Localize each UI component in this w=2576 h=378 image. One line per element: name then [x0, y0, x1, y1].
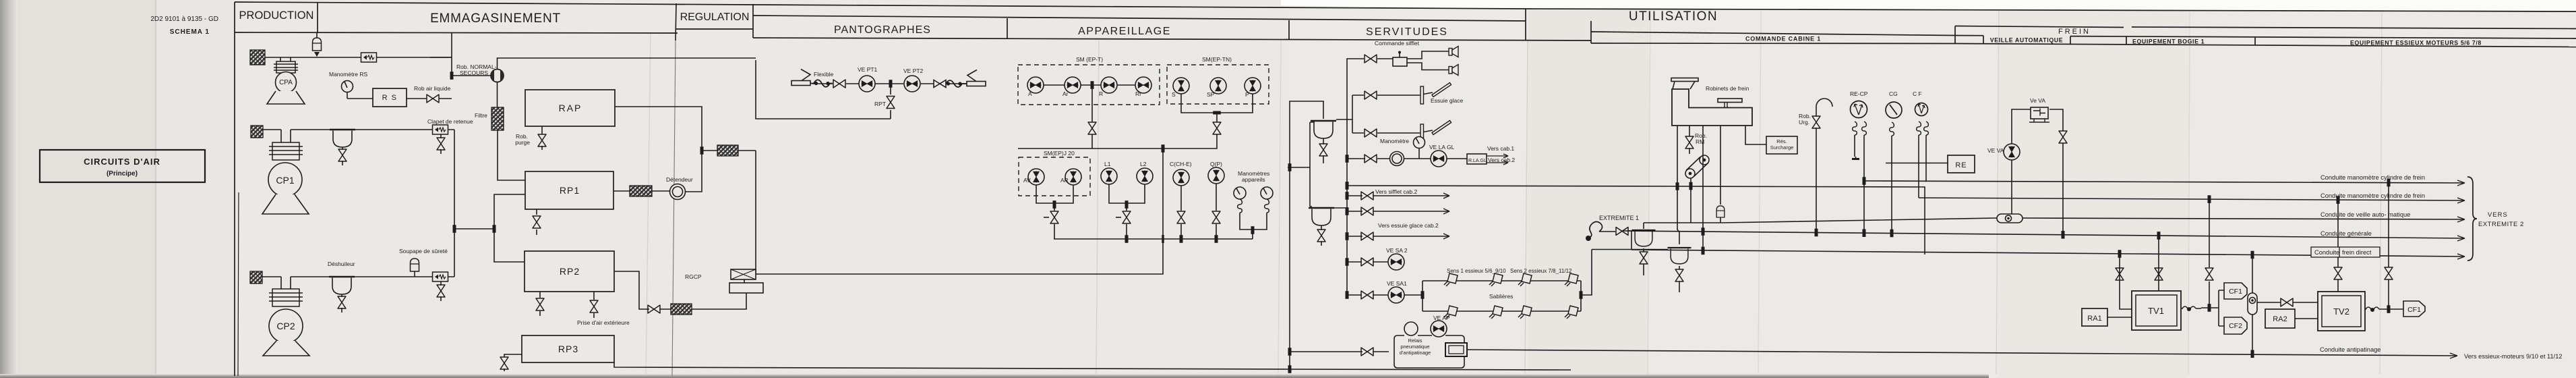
svg-text:SERVITUDES: SERVITUDES — [1366, 26, 1448, 38]
svg-text:EXTREMITE 1: EXTREMITE 1 — [1599, 215, 1639, 221]
svg-text:R S: R S — [382, 94, 398, 102]
svg-text:d'antipatinage: d'antipatinage — [1400, 350, 1431, 356]
svg-text:REGULATION: REGULATION — [680, 11, 750, 23]
svg-text:S: S — [1172, 91, 1176, 98]
svg-text:Conduite manomètre cylindre de: Conduite manomètre cylindre de frein — [2320, 174, 2425, 181]
svg-text:VEILLE AUTOMATIQUE: VEILLE AUTOMATIQUE — [1990, 37, 2063, 44]
svg-text:appareils: appareils — [1242, 176, 1265, 183]
svg-text:SP: SP — [1207, 91, 1215, 98]
svg-text:CF2: CF2 — [2229, 322, 2242, 330]
svg-text:Rr: Rr — [1135, 90, 1141, 97]
svg-text:P: P — [1245, 91, 1249, 98]
svg-text:PRODUCTION: PRODUCTION — [239, 9, 314, 22]
svg-text:FREIN: FREIN — [2058, 28, 2091, 36]
svg-text:Robinets de frein: Robinets de frein — [1706, 85, 1749, 92]
svg-text:RP3: RP3 — [558, 344, 578, 354]
svg-text:C(CH-E): C(CH-E) — [1170, 161, 1192, 167]
svg-text:VE AP: VE AP — [1433, 315, 1450, 321]
svg-text:L2: L2 — [1140, 161, 1147, 167]
svg-text:EQUIPEMENT ESSIEUX MOTEURS 5/: EQUIPEMENT ESSIEUX MOTEURS 5/6 7/8 — [2350, 40, 2482, 47]
svg-text:L1: L1 — [1104, 161, 1111, 167]
svg-text:CF1: CF1 — [2229, 288, 2242, 296]
svg-text:Flexible: Flexible — [814, 71, 834, 78]
svg-text:Essuie glace: Essuie glace — [1431, 97, 1463, 104]
svg-text:Urg.: Urg. — [1799, 119, 1809, 126]
svg-text:TV2: TV2 — [2333, 306, 2349, 317]
svg-text:Conduite manomètre cylindre d: Conduite manomètre cylindre de frein — [2320, 192, 2425, 199]
svg-text:APPAREILLAGE: APPAREILLAGE — [1078, 26, 1171, 37]
svg-text:Vers sifflet cab.2: Vers sifflet cab.2 — [1375, 188, 1417, 195]
svg-text:TV1: TV1 — [2148, 306, 2164, 316]
svg-text:R: R — [1099, 90, 1103, 97]
svg-text:COMMANDE CABINE 1: COMMANDE CABINE 1 — [1745, 36, 1821, 43]
svg-text:CP2: CP2 — [276, 321, 295, 331]
svg-text:RM: RM — [1696, 138, 1704, 145]
svg-text:2D2 9101 à 9135 - GD: 2D2 9101 à 9135 - GD — [150, 16, 218, 23]
svg-text:UTILISATION: UTILISATION — [1629, 9, 1718, 24]
svg-text:RE-CP: RE-CP — [1850, 90, 1868, 97]
svg-text:Vers essieux-moteurs 9/10 et 1: Vers essieux-moteurs 9/10 et 11/12 — [2464, 353, 2563, 360]
svg-text:Soupape de sûreté: Soupape de sûreté — [399, 248, 448, 254]
svg-text:(Principe): (Principe) — [107, 170, 138, 178]
svg-text:Rés.: Rés. — [1776, 138, 1787, 144]
svg-text:SCHEMA 1: SCHEMA 1 — [170, 28, 210, 36]
svg-text:Clapet de retenue: Clapet de retenue — [427, 118, 473, 125]
svg-text:Q(P): Q(P) — [1210, 161, 1222, 167]
svg-text:RP1: RP1 — [560, 185, 580, 196]
svg-text:EMMAGASINEMENT: EMMAGASINEMENT — [430, 11, 561, 26]
svg-text:VE PT1: VE PT1 — [858, 66, 878, 73]
svg-text:Vers cab.2: Vers cab.2 — [1488, 157, 1515, 163]
svg-text:VERS: VERS — [2488, 211, 2508, 219]
svg-text:Manomètre: Manomètre — [1380, 138, 1409, 144]
svg-text:CP1: CP1 — [276, 175, 294, 186]
svg-text:CG: CG — [1889, 90, 1898, 97]
svg-text:RPT: RPT — [874, 101, 886, 107]
svg-text:Manomètre RS: Manomètre RS — [329, 71, 367, 78]
svg-text:RA1: RA1 — [2087, 315, 2101, 323]
svg-text:frein direct: frein direct — [2342, 249, 2372, 256]
svg-text:CPA: CPA — [279, 79, 293, 86]
svg-text:VE SA1: VE SA1 — [1387, 280, 1407, 287]
svg-text:PANTOGRAPHES: PANTOGRAPHES — [834, 24, 931, 36]
svg-text:VE SA 2: VE SA 2 — [1386, 247, 1408, 254]
svg-text:Relais: Relais — [1408, 337, 1422, 344]
svg-text:pneumatique: pneumatique — [1400, 344, 1429, 350]
svg-text:Rob air liquide: Rob air liquide — [414, 85, 451, 92]
svg-text:VE PT2: VE PT2 — [903, 67, 924, 74]
svg-text:Ve VA: Ve VA — [2030, 97, 2045, 104]
svg-text:SECOURS: SECOURS — [460, 70, 488, 76]
svg-text:Vers cab.1: Vers cab.1 — [1487, 145, 1514, 152]
svg-text:RA2: RA2 — [2273, 315, 2287, 323]
svg-text:CIRCUITS D'AIR: CIRCUITS D'AIR — [84, 157, 160, 167]
svg-text:Sens 2 essieux 7/8_11/12: Sens 2 essieux 7/8_11/12 — [1510, 268, 1572, 274]
svg-text:Ar: Ar — [1062, 90, 1069, 97]
svg-text:Conduite antipatinage: Conduite antipatinage — [2320, 346, 2380, 353]
svg-text:VE VA: VE VA — [1987, 147, 2004, 154]
svg-text:R.LA.GL: R.LA.GL — [1468, 159, 1487, 163]
svg-text:Détendeur: Détendeur — [666, 176, 693, 183]
svg-text:CF1: CF1 — [2407, 306, 2421, 314]
svg-text:C F: C F — [1913, 90, 1922, 97]
svg-text:AV: AV — [1023, 177, 1031, 184]
svg-text:EXTREMITE 2: EXTREMITE 2 — [2478, 221, 2524, 228]
svg-text:Conduite générale: Conduite générale — [2320, 230, 2372, 237]
svg-text:RGCP: RGCP — [685, 273, 702, 280]
svg-text:RAP: RAP — [559, 103, 582, 113]
svg-text:Surcharge: Surcharge — [1770, 144, 1794, 151]
svg-text:Déshuileur: Déshuileur — [328, 261, 355, 267]
svg-text:Vers essuie glace cab.2: Vers essuie glace cab.2 — [1378, 222, 1439, 229]
svg-text:Prise d'air extérieure: Prise d'air extérieure — [577, 319, 630, 326]
svg-text:A: A — [1028, 90, 1032, 97]
svg-text:Sens 1 essieux 5/6_9/10: Sens 1 essieux 5/6_9/10 — [1447, 268, 1506, 274]
svg-text:Filtre: Filtre — [475, 112, 487, 119]
svg-text:Conduite de veille auto- matiq: Conduite de veille auto- matique — [2320, 211, 2410, 218]
svg-text:SM(EP-TN): SM(EP-TN) — [1202, 56, 1232, 63]
svg-text:SM(EP)J 20: SM(EP)J 20 — [1044, 150, 1075, 157]
svg-text:Conduite: Conduite — [2314, 249, 2339, 256]
svg-text:SM (EP-T): SM (EP-T) — [1076, 56, 1103, 63]
svg-text:RP2: RP2 — [560, 266, 580, 277]
svg-text:VE LA GL: VE LA GL — [1429, 144, 1455, 151]
svg-text:Sablières: Sablières — [1489, 293, 1513, 300]
svg-text:purge: purge — [515, 139, 530, 146]
svg-text:AR: AR — [1060, 177, 1069, 184]
svg-text:Commande sifflet: Commande sifflet — [1375, 40, 1420, 47]
svg-text:EQUIPEMENT BOGIE 1: EQUIPEMENT BOGIE 1 — [2132, 38, 2205, 45]
svg-text:RE: RE — [1955, 161, 1967, 169]
